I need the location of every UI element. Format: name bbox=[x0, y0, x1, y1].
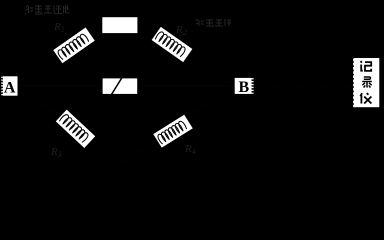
node A box bbox=[1, 76, 17, 95]
galvanometer slash bbox=[112, 73, 125, 94]
dashed enclosure boundary over node A bbox=[1, 75, 3, 97]
resistor R3 (strain gauge) bbox=[55, 109, 96, 149]
svg-text:A: A bbox=[4, 80, 16, 97]
wire galvanometer to B bbox=[137, 85, 236, 87]
resistor R4 (strain gauge) bbox=[153, 114, 194, 148]
dashed wire B to recorder bbox=[253, 85, 353, 87]
dashed enclosure boundary over node B bbox=[252, 77, 254, 96]
annotation label: compensation gauge (ghost text, top-right) bbox=[196, 19, 231, 26]
recorder text char JI (of Chinese word recorder) bbox=[361, 61, 372, 71]
annotation label: measuring strain gauge (ghost text, top-left) bbox=[25, 5, 69, 14]
wire power box to R2 bbox=[137, 25, 158, 33]
svg-text:B: B bbox=[238, 79, 249, 96]
dashed wire nicks on recorder left edge bbox=[352, 57, 354, 109]
recorder box bbox=[353, 58, 379, 107]
wire A to galvanometer bbox=[14, 85, 102, 87]
recorder text char YI bbox=[360, 93, 371, 103]
wire R2 to B bbox=[187, 57, 236, 86]
node B box bbox=[235, 78, 254, 94]
galvanometer box bbox=[103, 78, 138, 94]
wire R4 to B bbox=[187, 87, 236, 116]
recorder text char LU bbox=[362, 77, 372, 88]
power supply box bbox=[102, 17, 137, 33]
wire A to R3 bbox=[14, 88, 60, 115]
resistor R2 (strain gauge) bbox=[151, 26, 193, 63]
wire bottom node to R4 bbox=[122, 140, 156, 162]
wire A to R1 bbox=[14, 52, 60, 84]
wire R1 to power box bbox=[88, 25, 103, 33]
resistor R1 (strain gauge) bbox=[53, 27, 96, 64]
wire R3 to bottom node bbox=[90, 141, 122, 162]
